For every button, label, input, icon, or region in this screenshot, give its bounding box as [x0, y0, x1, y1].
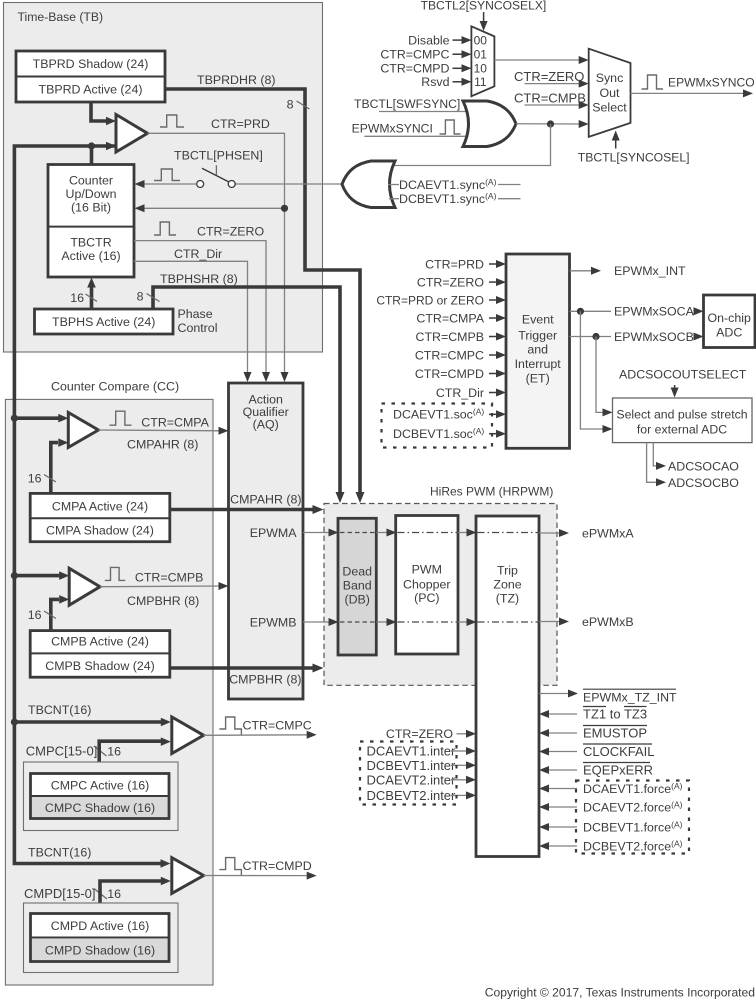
wire SOCB branch to external ADC select — [596, 337, 607, 413]
svg-text:CMPBHR (8): CMPBHR (8) — [127, 594, 199, 608]
wire CMPC active to comparator — [99, 741, 161, 773]
register TBPRD Shadow/Active box — [16, 51, 165, 102]
wire CTR=ZERO to AQ — [134, 241, 266, 377]
wire bus into counter top — [90, 146, 94, 164]
label DCAEVT1.sync — [388, 184, 399, 186]
pulse symbol CTR=CMPB — [105, 567, 125, 580]
svg-text:TBCNT(16): TBCNT(16) — [28, 703, 91, 717]
wire EPWMxSOCB output — [570, 336, 612, 338]
svg-text:CTR=CMPA: CTR=CMPA — [416, 311, 484, 325]
svg-text:Band: Band — [343, 578, 372, 592]
svg-text:CMPA Shadow (24): CMPA Shadow (24) — [46, 523, 154, 537]
svg-text:DCBEVT2.inter: DCBEVT2.inter — [367, 788, 457, 803]
svg-text:EPWMxSYNCI: EPWMxSYNCI — [352, 121, 433, 135]
block Event Trigger and Interrupt (ET) — [506, 254, 570, 448]
box CMPC group — [24, 762, 179, 831]
box HiRes PWM (HRPWM) dashed container — [324, 504, 557, 686]
svg-text:TZ1 to TZ3: TZ1 to TZ3 — [583, 707, 647, 722]
svg-text:CMPC Active (16): CMPC Active (16) — [51, 778, 149, 792]
svg-text:EPWMx_TZ_INT: EPWMx_TZ_INT — [583, 690, 677, 704]
pulse symbol CTR=CMPA — [110, 411, 132, 425]
svg-text:EPWMA: EPWMA — [250, 526, 298, 540]
mux Sync Out Select — [589, 49, 631, 137]
svg-text:TBCTL[SWFSYNC]: TBCTL[SWFSYNC] — [354, 97, 460, 111]
svg-text:CMPAHR (8): CMPAHR (8) — [127, 438, 198, 452]
box Counter Compare (CC) container — [5, 399, 213, 985]
bus width tick 16 CMPC — [94, 746, 107, 756]
svg-text:16: 16 — [70, 291, 84, 305]
svg-text:CTR=ZERO: CTR=ZERO — [514, 69, 584, 84]
svg-text:EQEPxERR: EQEPxERR — [583, 763, 653, 778]
svg-text:TBCTL2[SYNCOSELX]: TBCTL2[SYNCOSELX] — [421, 0, 547, 13]
pulse symbol EPWMxSYNCO — [642, 75, 664, 89]
svg-text:CTR_Dir: CTR_Dir — [436, 386, 484, 400]
svg-text:for external ADC: for external ADC — [637, 422, 727, 436]
svg-text:CMPC[15-0]: CMPC[15-0] — [26, 744, 98, 759]
svg-text:DCBEVT2.force(A): DCBEVT2.force(A) — [583, 838, 683, 853]
svg-text:ADC: ADC — [716, 325, 742, 339]
wire CMPB active to comparator — [51, 599, 59, 630]
comparator CTR=CMPB triangle — [69, 568, 100, 605]
comparator CTR=CMPD triangle — [172, 858, 204, 894]
node junction bus CMPA — [11, 415, 18, 422]
svg-text:CTR=CMPC: CTR=CMPC — [415, 348, 484, 362]
block Dead Band (DB) — [338, 518, 376, 655]
svg-text:CTR=CMPB: CTR=CMPB — [416, 330, 485, 344]
svg-text:(16 Bit): (16 Bit) — [71, 200, 111, 214]
svg-text:CTR=CMPD: CTR=CMPD — [415, 367, 484, 381]
pulse symbol CTR=CMPC — [219, 717, 241, 735]
svg-text:CMPC Shadow (16): CMPC Shadow (16) — [45, 801, 155, 815]
wire CMPA active to comparator — [51, 443, 58, 494]
svg-text:Interrupt: Interrupt — [515, 357, 562, 371]
svg-text:ePWMxB: ePWMxB — [582, 615, 634, 629]
svg-text:Dead: Dead — [342, 564, 372, 578]
svg-text:16: 16 — [28, 608, 42, 622]
wire ADCSOCAO output — [653, 443, 658, 466]
switch TBCTL[PHSEN] — [197, 165, 236, 187]
block On-chip ADC — [704, 295, 756, 348]
svg-text:ADCSOCBO: ADCSOCBO — [668, 476, 739, 490]
svg-text:TBCTR: TBCTR — [70, 235, 111, 249]
comparator CTR=CMPA triangle — [68, 413, 98, 448]
svg-text:(ET): (ET) — [526, 371, 550, 385]
bus width tick 16 CMPD — [94, 889, 107, 900]
pulse symbol CTR=PRD — [160, 115, 184, 127]
svg-text:CMPD Shadow (16): CMPD Shadow (16) — [45, 943, 155, 957]
svg-text:(TZ): (TZ) — [496, 591, 519, 605]
wire CMPBHR thick to HRPWM — [170, 666, 318, 670]
svg-text:8: 8 — [287, 97, 294, 111]
svg-text:CTR=PRD: CTR=PRD — [211, 117, 270, 131]
node junction EPWMxSOCA — [577, 308, 584, 315]
node junction EPWMxSOCB — [592, 333, 599, 340]
counter Up/Down and TBCTR Active box — [48, 165, 134, 278]
svg-text:Up/Down: Up/Down — [66, 187, 117, 201]
svg-text:PWM: PWM — [412, 562, 442, 576]
svg-text:Copyright © 2017, Texas Instru: Copyright © 2017, Texas Instruments Inco… — [485, 985, 755, 999]
wire TBPRD to PRD comparator — [91, 102, 110, 121]
svg-text:CTR=CMPB: CTR=CMPB — [135, 571, 204, 585]
svg-text:16: 16 — [28, 472, 42, 486]
svg-text:Out: Out — [600, 86, 621, 100]
svg-text:Trip: Trip — [497, 563, 518, 577]
mux SYNCOSELX — [471, 26, 494, 96]
svg-text:EPWMx_INT: EPWMx_INT — [614, 264, 686, 278]
block Trip Zone (TZ) — [476, 516, 539, 857]
svg-text:TBPHS Active (24): TBPHS Active (24) — [52, 315, 155, 329]
wire EPWMB path through DB PC TZ — [303, 621, 334, 623]
svg-text:ePWMxA: ePWMxA — [582, 526, 634, 540]
wire TBCTL[SWFSYNC] into OR gate — [379, 111, 469, 113]
or-gate phase sync combine (left pointing) — [342, 161, 395, 208]
svg-text:DCBEVT1.force(A): DCBEVT1.force(A) — [583, 819, 683, 834]
svg-text:DCBEVT1.sync(A): DCBEVT1.sync(A) — [399, 191, 497, 206]
wire ADCSOCOUTSELECT arrow — [674, 385, 676, 393]
wire TBCNT thick bus left side — [14, 146, 165, 864]
block PWM Chopper (PC) — [396, 516, 458, 655]
wire CMPAHR thick to HRPWM — [170, 508, 318, 512]
svg-text:DCBEVT1.inter: DCBEVT1.inter — [367, 758, 457, 773]
svg-text:Control: Control — [178, 321, 218, 335]
wire SOCA branch to external ADC select — [580, 311, 607, 429]
bus width tick 16 CMPA — [44, 475, 56, 483]
svg-text:Event: Event — [522, 312, 554, 326]
svg-text:CTR=CMPB: CTR=CMPB — [514, 91, 586, 106]
wire EPWMx_INT output — [570, 270, 597, 272]
wire bus to CMPC comparator — [14, 720, 165, 724]
wire TBPHSHR thick bus to HRPWM — [153, 287, 340, 497]
comparator CTR=PRD triangle — [116, 115, 148, 153]
svg-text:TBPRD Shadow (24): TBPRD Shadow (24) — [33, 57, 149, 71]
pulse symbol EPWMxSYNCI — [440, 120, 461, 134]
svg-text:ADCSOCAO: ADCSOCAO — [668, 459, 739, 473]
svg-text:HiRes PWM (HRPWM): HiRes PWM (HRPWM) — [430, 484, 553, 498]
svg-text:(AQ): (AQ) — [253, 417, 279, 431]
svg-text:16: 16 — [107, 887, 121, 901]
svg-text:Phase: Phase — [178, 307, 213, 321]
wire ePWMxB output — [539, 621, 564, 623]
svg-text:TBCTL[PHSEN]: TBCTL[PHSEN] — [174, 148, 263, 162]
svg-text:CTR=PRD: CTR=PRD — [425, 257, 484, 271]
register CMPB Active/Shadow box — [30, 631, 170, 678]
pulse symbol phase sync — [154, 169, 180, 181]
bus width tick 16 CMPB — [44, 611, 56, 619]
wire EPWMxSYNCI into OR gate — [364, 135, 470, 137]
wire switch to counter sync input — [139, 183, 197, 185]
register CMPD Active/Shadow box — [31, 914, 170, 962]
svg-text:CMPAHR (8): CMPAHR (8) — [230, 492, 301, 506]
dotted box DC inter events — [360, 742, 457, 805]
svg-text:DCAEVT1.soc(A): DCAEVT1.soc(A) — [393, 407, 484, 422]
node junction bus CMPB — [11, 572, 18, 579]
svg-text:and: and — [527, 342, 548, 356]
svg-text:EPWMB: EPWMB — [250, 615, 297, 629]
block Select and pulse stretch for external ADC — [613, 398, 753, 443]
wire OR output to Sync Out Select — [516, 123, 584, 125]
svg-text:Active (16): Active (16) — [61, 249, 120, 263]
svg-text:Select and pulse stretch: Select and pulse stretch — [616, 407, 747, 421]
register CMPA Active/Shadow box — [30, 493, 170, 541]
svg-text:TBCNT(16): TBCNT(16) — [28, 845, 91, 859]
bus width tick 8 on TBPHSHR — [147, 294, 160, 302]
wire ADCSOCBO output — [647, 443, 658, 483]
svg-text:(PC): (PC) — [414, 591, 439, 605]
svg-text:CTR=CMPD: CTR=CMPD — [243, 859, 312, 873]
wire bus to CMPA comparator — [14, 416, 62, 420]
svg-text:01: 01 — [474, 48, 488, 62]
svg-text:10: 10 — [474, 62, 488, 76]
svg-text:CTR_Dir: CTR_Dir — [174, 247, 222, 261]
svg-text:TBCTL[SYNCOSEL]: TBCTL[SYNCOSEL] — [578, 151, 690, 165]
wire ePWMxA output — [539, 532, 564, 534]
svg-text:CMPBHR (8): CMPBHR (8) — [229, 672, 301, 686]
dotted box DC force events — [576, 781, 689, 854]
wire CTR_Dir to AQ — [134, 261, 248, 377]
box Time-Base (TB) container — [4, 3, 323, 353]
wire select into SYNCOSELX mux — [483, 12, 485, 26]
wire CTR=CMPB to AQ — [100, 585, 224, 588]
svg-text:CTR=ZERO: CTR=ZERO — [417, 276, 484, 290]
wire sync OR output to phase switch — [235, 183, 341, 185]
svg-text:Counter Compare (CC): Counter Compare (CC) — [51, 380, 179, 394]
bus width tick 8 on TBPRDHR — [297, 101, 310, 109]
svg-text:CTR=CMPC: CTR=CMPC — [380, 48, 449, 62]
pulse symbol CTR=ZERO — [154, 222, 176, 235]
svg-text:Zone: Zone — [493, 577, 521, 591]
wire CMPD active to comparator — [100, 881, 161, 914]
svg-text:8: 8 — [137, 289, 144, 303]
svg-text:DCAEVT1.inter: DCAEVT1.inter — [367, 744, 457, 759]
svg-text:Chopper: Chopper — [403, 577, 451, 591]
label DCBEVT1.sync — [389, 198, 399, 200]
svg-text:ADCSOCOUTSELECT: ADCSOCOUTSELECT — [619, 367, 747, 381]
svg-text:DCAEVT2.force(A): DCAEVT2.force(A) — [583, 799, 683, 814]
node junction sync branch — [547, 120, 554, 127]
wire TBPHS to TBCTR load, width 16 — [90, 282, 94, 308]
svg-text:DCAEVT2.inter: DCAEVT2.inter — [367, 772, 457, 787]
or-gate sync combine — [463, 101, 516, 147]
svg-text:CTR=CMPD: CTR=CMPD — [380, 62, 449, 76]
wire SYNCOSEL select arrow — [615, 136, 617, 149]
wire EPWMA path through DB PC TZ — [303, 532, 334, 534]
register CMPC Active/Shadow box — [31, 774, 170, 819]
svg-text:CTR=PRD or ZERO: CTR=PRD or ZERO — [376, 293, 484, 307]
svg-text:CTR=ZERO: CTR=ZERO — [386, 727, 453, 741]
svg-text:Trigger: Trigger — [518, 328, 557, 342]
svg-text:CTR=CMPA: CTR=CMPA — [141, 415, 209, 429]
svg-text:(DB): (DB) — [344, 592, 369, 606]
dotted box DC soc events — [382, 404, 493, 448]
wire TBPRDHR thick bus to HRPWM — [165, 89, 360, 497]
svg-text:Time-Base (TB): Time-Base (TB) — [18, 10, 104, 24]
svg-text:TBPRDHR (8): TBPRDHR (8) — [197, 73, 275, 87]
block Action Qualifier (AQ) — [229, 383, 304, 699]
svg-text:EPWMxSOCB: EPWMxSOCB — [614, 330, 694, 344]
svg-text:TBPHSHR (8): TBPHSHR (8) — [160, 272, 238, 286]
svg-text:TBPRD Active (24): TBPRD Active (24) — [39, 82, 143, 96]
svg-text:Disable: Disable — [408, 34, 449, 48]
wire CTR=CMPC output — [204, 734, 312, 737]
node junction CTR=PRD branch — [281, 205, 288, 212]
svg-text:DCAEVT1.force(A): DCAEVT1.force(A) — [583, 781, 683, 796]
svg-text:CTR=CMPC: CTR=CMPC — [243, 718, 312, 732]
svg-text:CMPD Active (16): CMPD Active (16) — [51, 919, 149, 933]
node junction bus to counter top — [88, 142, 95, 149]
wire CTR=CMPD output — [204, 875, 312, 877]
wire sync branch down to phase OR gate — [390, 124, 551, 166]
box CMPD group — [24, 903, 179, 973]
svg-text:Sync: Sync — [596, 71, 624, 85]
svg-text:CMPB Active (24): CMPB Active (24) — [51, 635, 149, 649]
wire EPWMxSOCA output — [570, 310, 612, 312]
svg-text:On-chip: On-chip — [708, 311, 751, 325]
svg-text:CMPD[15-0]: CMPD[15-0] — [24, 886, 96, 901]
wire EPWMxSYNCO output — [631, 92, 749, 94]
wire CTR=PRD output to counter and AQ — [148, 133, 285, 377]
svg-text:CTR=ZERO: CTR=ZERO — [197, 224, 264, 238]
svg-text:CMPB Shadow (24): CMPB Shadow (24) — [45, 659, 155, 673]
wire SYNCOSELX mux to Sync Out Select — [494, 59, 584, 61]
wire CTR=CMPA to AQ — [98, 429, 224, 432]
svg-text:DCAEVT1.sync(A): DCAEVT1.sync(A) — [399, 177, 497, 192]
svg-text:CLOCKFAIL: CLOCKFAIL — [583, 744, 655, 759]
comparator CTR=CMPC triangle — [172, 717, 204, 754]
svg-text:00: 00 — [474, 33, 488, 47]
svg-text:DCBEVT1.soc(A): DCBEVT1.soc(A) — [393, 426, 484, 441]
svg-text:EMUSTOP: EMUSTOP — [583, 726, 647, 741]
node junction bus CMPC — [11, 718, 18, 725]
svg-text:Select: Select — [592, 100, 627, 114]
svg-text:EPWMxSOCA: EPWMxSOCA — [614, 305, 695, 319]
svg-text:Rsvd: Rsvd — [421, 75, 449, 89]
pulse symbol CTR=CMPD — [219, 858, 241, 876]
wire bus to CMPB comparator — [14, 574, 63, 578]
svg-text:EPWMxSYNCO: EPWMxSYNCO — [668, 76, 755, 90]
svg-text:11: 11 — [474, 75, 487, 89]
svg-text:16: 16 — [107, 744, 121, 758]
wire EPWMx_TZ_INT output — [539, 693, 573, 695]
svg-text:CMPA Active (24): CMPA Active (24) — [52, 499, 148, 513]
svg-text:Counter: Counter — [69, 173, 113, 187]
register TBPHS Active (24) box — [35, 309, 174, 334]
